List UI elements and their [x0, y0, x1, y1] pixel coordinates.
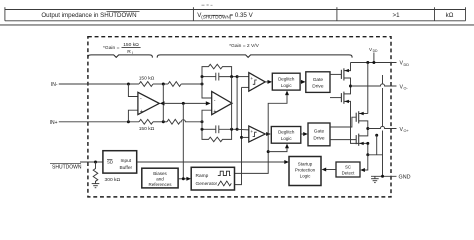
wire: shutdown logic line to startup protection: [137, 161, 285, 163]
svg-text:*Gain = 2 V/V: *Gain = 2 V/V: [229, 43, 260, 49]
block: SC Detect: [336, 162, 360, 177]
wire: comparator U3 top input: [237, 76, 249, 78]
resistor R2a 150k (IN+): [139, 119, 153, 124]
gain label 1: *Gain = 150 kΩ / RI: [103, 42, 141, 55]
svg-text:150 kΩ: 150 kΩ: [139, 76, 155, 82]
block: Gate Drive 1: [306, 72, 330, 93]
wire: U3 to deglitch 1: [265, 81, 268, 83]
pin label VO-: [400, 84, 409, 90]
wire: [181, 83, 202, 85]
svg-text:Detect: Detect: [342, 170, 355, 175]
wire: bulk tie vertical: [376, 135, 378, 155]
comparator U3: [249, 73, 265, 93]
wire: deglitch1 to gate drive 1: [300, 81, 302, 83]
transistor Q1 (PMOS high side, Vo-): [341, 63, 350, 87]
svg-text:Biases: Biases: [153, 171, 167, 176]
svg-text:300 kΩ: 300 kΩ: [105, 177, 121, 183]
svg-text:kΩ: kΩ: [446, 12, 454, 19]
svg-text:Gate: Gate: [314, 129, 325, 135]
node: Vo- output: [349, 85, 352, 88]
node: shutdown / 300k: [94, 161, 97, 164]
block: Gate Drive 2: [308, 123, 330, 146]
node: [182, 177, 185, 180]
pin label SHUTDOWN (overline): [50, 164, 82, 171]
wire: comparator U4 top input: [237, 128, 249, 131]
node: ramp to U4: [240, 136, 243, 139]
wire: [153, 83, 168, 85]
ground symbol (300k): [92, 184, 100, 188]
brace 2 (gain 2 V/V span): [157, 55, 352, 58]
wire: supply sense vertical (hops outputs): [382, 75, 384, 84]
wire with hop over vertical: [180, 120, 202, 122]
wire: U1 feedback vertical: [162, 84, 164, 122]
node: [162, 83, 165, 86]
wire: VDD to Q3: [367, 63, 369, 114]
ghost text remnants above table: [202, 4, 213, 6]
transistor Q4 (NMOS low side, Vo+): [356, 129, 368, 155]
node: low-side common: [366, 153, 369, 156]
svg-text:and: and: [156, 177, 164, 182]
capacitor C1 (top): [202, 73, 237, 81]
svg-text:+: +: [140, 109, 143, 115]
svg-text:150 kΩ: 150 kΩ: [139, 126, 155, 132]
svg-text:Input: Input: [120, 158, 131, 164]
pin label VO+: [400, 127, 410, 133]
svg-text:>1: >1: [392, 12, 400, 19]
RC feedback network (top): resistor loop: [202, 64, 232, 76]
nodes on top RC rail: [201, 75, 204, 78]
node: IN+ / R2 junction: [127, 120, 130, 123]
svg-text:Output impedance in SHUTDOWN: Output impedance in SHUTDOWN: [41, 12, 136, 19]
svg-text:DD: DD: [404, 63, 410, 67]
wire: SC detect to startup protection: [326, 169, 336, 171]
transistor Q2 (NMOS low side, Vo-): [341, 86, 358, 143]
svg-text:Drive: Drive: [313, 135, 325, 141]
svg-text:IN+: IN+: [50, 120, 58, 126]
svg-text:Protection: Protection: [295, 168, 316, 173]
svg-text:-: -: [140, 96, 142, 102]
wire: VDD rail: [351, 62, 397, 64]
block: Startup Protection Logic: [289, 157, 321, 186]
node: IN+ net at x202: [201, 120, 204, 123]
resistor R2b feedback (IN+): [167, 119, 180, 124]
wire: ramp clock to deglitch blocks: [235, 95, 288, 174]
svg-text:+: +: [213, 109, 216, 115]
wire: gate drive 1 to Q1 gate: [330, 73, 341, 75]
transistor Q3 (PMOS high side, Vo+): [356, 111, 368, 128]
node: Vo+ output: [366, 127, 369, 130]
op-amp U2 (integrator): [212, 92, 232, 116]
RC feedback network (bottom): resistor loop: [202, 129, 232, 141]
svg-text:+: +: [250, 77, 253, 82]
svg-text:Buffer: Buffer: [119, 165, 132, 171]
wire: sense line into SC detect: [364, 155, 368, 170]
svg-text:Logic: Logic: [300, 174, 312, 179]
wire: bias vertical from U1 output node: [182, 103, 184, 178]
resistor R3 300k pulldown: [93, 162, 98, 184]
svg-text:O+: O+: [404, 129, 410, 133]
svg-text:Logic: Logic: [281, 136, 293, 141]
nodes on bottom RC rail: [201, 128, 204, 131]
wire: U2 output vertical: [231, 77, 233, 130]
svg-text:O-: O-: [404, 87, 409, 91]
block: Ramp Generator: [191, 167, 234, 190]
arrowhead into U2: [206, 101, 211, 105]
svg-text:Drive: Drive: [312, 84, 324, 90]
wire: gate drive 2 to Q4 gate: [330, 139, 356, 141]
brace 1 (gain 150k/Ri span): [88, 55, 152, 58]
wire: IN- input: [59, 83, 139, 85]
wire: GND rail: [371, 175, 397, 177]
node: IN- net at x202: [201, 83, 204, 86]
resistor R1a 150k (IN-): [139, 82, 153, 87]
wire: low-side common to GND: [368, 155, 383, 177]
svg-text:Ramp: Ramp: [196, 173, 209, 179]
wire: deglitch2 to gate drive 2: [301, 133, 304, 135]
wire: RC tie vertical: [236, 77, 238, 130]
svg-text:Startup: Startup: [298, 162, 313, 167]
wire: x202 vertical (RC to U2 +in): [202, 77, 212, 98]
arrowhead into U1 output: [160, 101, 165, 105]
resistor R1b feedback (IN-): [168, 82, 181, 87]
svg-text:Gate: Gate: [313, 77, 324, 83]
svg-text:DD: DD: [373, 49, 378, 53]
table cell: parameter "Output impedance in SHUTDOWN": [41, 11, 139, 19]
wire: U4 to deglitch 2: [265, 133, 267, 135]
svg-text:Generator: Generator: [196, 181, 218, 187]
svg-text:Logic: Logic: [281, 83, 293, 88]
wire: gate drive 1 to Q2 gate: [330, 97, 341, 99]
node: low-side join: [366, 142, 369, 145]
node: [182, 102, 185, 105]
wire: VDD stub: [373, 53, 375, 63]
wire: IN+ input: [59, 121, 139, 123]
op-amp U1 input stubs: [128, 84, 138, 122]
svg-text:+: +: [250, 130, 253, 135]
wire: comparator U3 bottom input: [242, 86, 249, 88]
wire: x202 vertical (IN+ to U2 -in and RC2): [202, 110, 212, 129]
svg-text:Deglitch: Deglitch: [278, 130, 295, 135]
wire: ramp distribution vertical: [235, 87, 242, 184]
wire: shutdown input: [80, 161, 103, 163]
grey page divider: [0, 24, 474, 26]
wire: comparator U4 bottom input: [242, 136, 249, 138]
block: Biases and References: [142, 168, 178, 188]
svg-text:IN-: IN-: [51, 82, 58, 88]
svg-text:= 0.35 V: = 0.35 V: [230, 12, 254, 19]
wire: clock branch to deglitch 2: [268, 148, 287, 152]
node: clock branch: [267, 150, 270, 153]
block: Deglitch Logic 2: [271, 127, 301, 144]
IC dashed boundary box: [88, 37, 391, 197]
node: IN- / R1 junction: [127, 83, 130, 86]
node: [162, 120, 165, 123]
op-amp U1 (input diff amp): [138, 92, 159, 115]
wire: U1 output to U2: [163, 102, 206, 104]
wire: [153, 121, 167, 123]
table row: spec table: [5, 7, 466, 21]
wire: Vo+ line with hop: [368, 126, 397, 128]
VDD label (internal): [369, 47, 378, 53]
table cell: condition V(SHUTDOWN) = 0.35 V: [197, 12, 253, 20]
wire: Vo- line with hop: [351, 84, 397, 86]
svg-text:SD: SD: [107, 160, 113, 165]
svg-text:SHUTDOWN: SHUTDOWN: [52, 164, 82, 170]
block: Input Buffer (with SD): [103, 151, 137, 173]
svg-text:References: References: [148, 182, 172, 187]
svg-text:R: R: [127, 49, 131, 55]
block: Deglitch Logic 1: [272, 73, 300, 90]
svg-text:GND: GND: [399, 175, 411, 181]
svg-text:SC: SC: [345, 165, 351, 170]
wire: gate drive 2 to Q3 gate: [330, 117, 356, 127]
ground symbol (output stage): [371, 176, 379, 182]
pin label VDD: [400, 61, 410, 67]
wire: biases to ramp generator: [178, 178, 187, 180]
capacitor C2 (bottom): [202, 125, 237, 133]
comparator U4: [249, 126, 265, 144]
svg-text:-: -: [214, 97, 216, 103]
svg-text:Deglitch: Deglitch: [278, 77, 295, 82]
svg-text:*Gain =: *Gain =: [103, 45, 120, 51]
node: bulk tie: [375, 134, 378, 137]
